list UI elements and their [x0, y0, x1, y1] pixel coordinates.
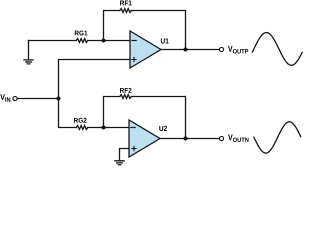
label RF1 [120, 1, 132, 6]
node: U2 output junction [184, 137, 188, 141]
wire: VIN junction down to RG2 to U2 inverting input [59, 99, 130, 128]
terminal: VOUTP [219, 47, 223, 51]
wire: RF1 feedback loop [104, 11, 186, 50]
terminal: VOUTN [219, 136, 223, 140]
pin: U1 minus [132, 40, 136, 42]
pin: U2 plus [132, 146, 136, 150]
label RG2 [74, 118, 87, 123]
wire: U1 output to VOUTP terminal [161, 49, 219, 51]
resistor RF1 [120, 9, 132, 13]
node: U1 inverting input junction [102, 39, 106, 43]
pin: U2 minus [131, 127, 135, 129]
label VIN [0, 94, 10, 101]
label U2 [159, 126, 167, 131]
ground [24, 41, 33, 64]
wire: U2 non-inverting input down-left [120, 149, 130, 161]
node: VIN junction [57, 97, 61, 101]
label U1 [161, 38, 169, 43]
op-amp U1 [130, 31, 161, 68]
resistor RG1 [76, 39, 88, 43]
wire: VIN terminal to junction [17, 98, 58, 100]
wire: VIN junction up to U1 non-inverting input [59, 60, 131, 99]
terminal: VIN [13, 96, 17, 100]
label RG1 [75, 31, 88, 36]
node: U2 inverting input junction [102, 126, 106, 130]
waveform: VOUTP sine [252, 33, 302, 66]
wire: U2 output to VOUTN terminal [160, 138, 219, 140]
pin: U1 plus [132, 57, 136, 61]
ground [115, 161, 124, 165]
label VOUTP [228, 46, 248, 54]
resistor RF2 [120, 95, 132, 99]
label RF2 [120, 88, 131, 93]
resistor RG2 [76, 126, 88, 130]
waveform: VOUTN sine [254, 122, 301, 153]
wire: ground1 to RG1 to U1 inverting input [29, 40, 131, 42]
node: U1 output junction [184, 48, 188, 52]
label VOUTN [228, 134, 248, 142]
wire: RF2 feedback loop [104, 97, 186, 139]
op-amp U2 [129, 120, 160, 157]
